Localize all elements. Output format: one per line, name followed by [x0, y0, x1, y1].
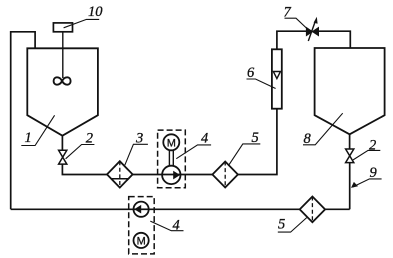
svg-text:10: 10 [88, 4, 103, 20]
filter 5' (bottom diamond) [300, 197, 325, 223]
wire: tank 8 outlet stub to valve 2 (right) [349, 134, 351, 149]
wire: pipe through middle pump [162, 174, 180, 176]
wire: line 9 vertical from valve 2 (right) down to bottom corner [349, 162, 351, 209]
valve 2 (right) bowtie [346, 149, 354, 163]
control valve 7 bowtie (filled) [306, 28, 312, 36]
filter 5 (middle diamond) [212, 162, 238, 188]
pump circle (middle pump 4) [162, 166, 180, 184]
svg-text:M: M [137, 235, 146, 247]
svg-text:4: 4 [201, 130, 208, 146]
agitator motor box 10 [53, 23, 72, 32]
control valve 7 regulation arrow [308, 22, 315, 42]
wire: left return riser (bottom-left corner up and into tank 1 top) [11, 32, 35, 210]
wire: pipe through bottom pump [134, 208, 149, 210]
motor M circle (bottom pump 4) [134, 233, 149, 248]
filter 5 dashed element [224, 162, 226, 188]
wire: valve 7 to tank 8 inlet [319, 31, 351, 48]
agitator propeller [54, 77, 71, 84]
rotameter float (triangle) [273, 72, 280, 79]
pump unit 4 (bottom) dashed enclosure [129, 197, 155, 254]
pump flow triangle (points right) [173, 171, 180, 180]
svg-text:5: 5 [278, 217, 285, 233]
filter 3 (diamond) [107, 161, 133, 187]
tank 1 (left mixing vessel) [27, 48, 98, 135]
wire: rotameter top up and over to control valve 7 [277, 31, 307, 49]
filter 5' dashed element [311, 197, 313, 223]
svg-text:1: 1 [25, 130, 32, 146]
svg-text:2: 2 [369, 138, 376, 154]
wire: valve 2 outlet down and feed run to riser corner [62, 109, 277, 175]
filter 3 sump line [111, 178, 128, 180]
rotameter 6 body [272, 49, 282, 108]
motor M circle (pump 4) [163, 134, 179, 150]
pump unit 4 (middle) dashed enclosure [158, 130, 186, 188]
agitator shaft [62, 32, 64, 78]
pump shaft (double line) [168, 150, 170, 166]
wire: bottom return run (right corner to pump suction, passes under filter) [11, 208, 350, 210]
valve 2 (left) bowtie [59, 150, 67, 164]
pump circle (bottom pump 4) [134, 202, 149, 217]
filter 3 dashed element [119, 161, 121, 187]
pump flow triangle (points left) [134, 205, 141, 214]
wire: tank 1 outlet stub to valve 2 [61, 136, 63, 151]
tank 8 (right vessel) [315, 48, 385, 134]
svg-text:M: M [167, 137, 176, 149]
